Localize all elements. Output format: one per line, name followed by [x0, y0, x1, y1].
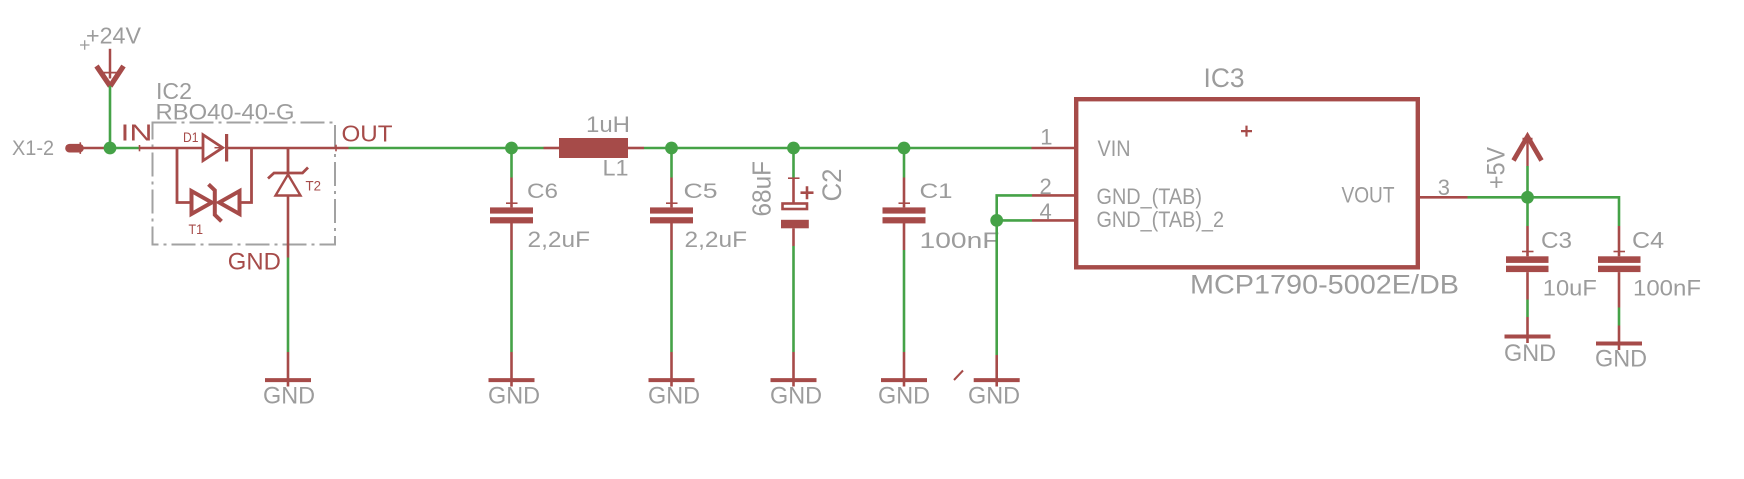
wire VOUT to +5V node — [1468, 196, 1528, 199]
wire C4 to GND — [1618, 308, 1621, 326]
ground GND (C1) — [878, 352, 930, 409]
capacitor C5 — [650, 148, 747, 252]
wire C1 to GND — [903, 250, 906, 352]
svg-text:1: 1 — [1040, 125, 1052, 150]
junction GND node — [990, 214, 1003, 227]
svg-text:T2: T2 — [306, 177, 322, 193]
wire L1 to VIN — [644, 147, 1032, 150]
junction input node — [104, 142, 117, 155]
svg-text:100nF: 100nF — [1633, 275, 1701, 300]
svg-text:GND: GND — [770, 382, 822, 409]
svg-text:C6: C6 — [527, 179, 558, 203]
pin end tick OUT — [335, 145, 337, 152]
supply +5V — [1483, 134, 1542, 189]
svg-text:GND: GND — [1595, 345, 1647, 372]
IC3 origin cross — [1241, 126, 1252, 137]
diode D1 — [183, 129, 227, 162]
junction C5 node — [665, 142, 678, 155]
capacitor C1 — [883, 148, 1000, 253]
svg-text:GND: GND — [228, 248, 281, 275]
svg-text:GND: GND — [878, 382, 930, 409]
svg-text:C4: C4 — [1632, 227, 1664, 253]
svg-text:VOUT: VOUT — [1342, 182, 1395, 207]
IC2 GND pin wire — [287, 196, 290, 258]
svg-text:GND: GND — [263, 382, 315, 409]
IC2 dashed symbol box — [153, 123, 336, 245]
svg-text:GND: GND — [1504, 340, 1556, 367]
ground GND (C2) — [770, 352, 822, 409]
svg-text:68uF: 68uF — [747, 161, 777, 217]
wire C5 to GND — [670, 250, 673, 352]
svg-text:1uH: 1uH — [586, 112, 630, 137]
capacitor C2 polarized — [747, 148, 848, 246]
ground GND (C5) — [648, 352, 700, 409]
svg-text:D1: D1 — [183, 129, 199, 145]
wire OUT to L1 — [349, 147, 544, 150]
svg-text:GND: GND — [488, 382, 540, 409]
svg-text:4: 4 — [1040, 199, 1052, 224]
svg-text:GND_(TAB): GND_(TAB) — [1097, 184, 1203, 209]
IC2 internal cathode wire — [227, 147, 349, 150]
zener T2 — [268, 148, 321, 196]
svg-text:C1: C1 — [920, 179, 953, 203]
svg-text:+5V: +5V — [1483, 147, 1511, 189]
svg-text:GND: GND — [648, 382, 700, 409]
wire +24V to node — [109, 86, 112, 148]
IC3 pin 4 GND_(TAB)_2 — [1032, 199, 1224, 232]
wire left branch down — [177, 148, 190, 203]
supply +24V — [80, 22, 142, 86]
junction C2 node — [787, 142, 800, 155]
svg-text:GND_(TAB)_2: GND_(TAB)_2 — [1097, 207, 1225, 232]
wire node to C4 — [1528, 197, 1620, 226]
svg-text:X1-2: X1-2 — [12, 137, 54, 160]
wire C3 to GND — [1526, 300, 1529, 318]
IC3 symbol box — [1076, 99, 1418, 267]
capacitor C3 — [1506, 197, 1597, 300]
wire IC2 to GND — [287, 258, 290, 353]
svg-text:C2: C2 — [817, 169, 847, 202]
ground GND (IC3) — [968, 355, 1020, 409]
junction C1 node — [898, 142, 911, 155]
ground GND (C4) — [1595, 326, 1647, 373]
ground GND (C3) — [1504, 317, 1556, 367]
svg-text:2,2uF: 2,2uF — [685, 227, 748, 252]
capacitor C4 — [1598, 226, 1701, 308]
wire C6 to GND — [510, 250, 513, 352]
wire +5V to node — [1526, 166, 1529, 197]
svg-text:GND: GND — [968, 382, 1020, 409]
svg-text:IN: IN — [121, 119, 153, 145]
svg-text:+24V: +24V — [86, 22, 142, 48]
wire node to IN pin — [115, 147, 139, 150]
svg-text:10uF: 10uF — [1543, 275, 1597, 300]
TVS T1 — [189, 184, 240, 237]
ground GND (IC2) — [263, 352, 315, 409]
connector pin X1-2 — [12, 137, 104, 160]
svg-text:3: 3 — [1438, 175, 1450, 200]
inductor L1 — [544, 112, 645, 181]
svg-text:MCP1790-5002E/DB: MCP1790-5002E/DB — [1190, 269, 1459, 299]
IC3 pin 3 VOUT — [1342, 175, 1468, 207]
svg-text:IC3: IC3 — [1204, 63, 1245, 93]
svg-text:100nF: 100nF — [920, 228, 1000, 253]
capacitor C6 — [490, 148, 590, 252]
wire right branch up — [240, 148, 252, 203]
wire C2 to GND — [792, 246, 795, 352]
svg-text:2: 2 — [1040, 174, 1052, 199]
stray tick mark — [954, 371, 963, 381]
wire GND pins to ground — [997, 195, 1032, 355]
wire pin4 branch — [997, 219, 1032, 222]
ground GND (C6) — [488, 352, 540, 409]
junction +5V node — [1521, 191, 1534, 204]
svg-text:OUT: OUT — [342, 121, 393, 147]
svg-text:2,2uF: 2,2uF — [528, 227, 591, 252]
IC2 internal anode wire — [139, 147, 202, 150]
svg-text:VIN: VIN — [1098, 136, 1131, 161]
svg-text:L1: L1 — [603, 156, 629, 181]
svg-text:RBO40-40-G: RBO40-40-G — [156, 99, 295, 124]
IC3 pin 1 VIN — [1032, 125, 1131, 161]
svg-text:C3: C3 — [1541, 227, 1572, 253]
junction C6 node — [505, 142, 518, 155]
svg-text:T1: T1 — [189, 221, 204, 237]
svg-text:C5: C5 — [684, 179, 718, 203]
IC3 pin 2 GND_(TAB) — [1032, 174, 1202, 209]
pin end tick IN — [139, 145, 141, 151]
